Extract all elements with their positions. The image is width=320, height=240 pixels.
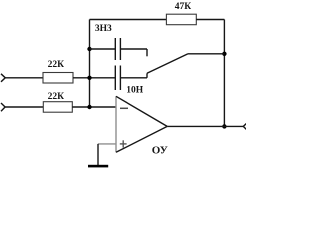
wire non-inverting input to ground drop — [98, 143, 116, 145]
wire switch arm to right rail — [188, 53, 224, 55]
input terminal IN2 chevron — [1, 103, 5, 111]
wire vertical summing rail — [89, 20, 91, 108]
wire R2 to inverting input of U1 — [72, 106, 116, 108]
switch SA1 pivot stub — [146, 73, 148, 78]
wire C1 to switch contact — [120, 48, 147, 50]
svg-text:ОУ: ОУ — [152, 144, 168, 156]
op-amp U1 body — [116, 96, 167, 152]
svg-text:22К: 22К — [48, 60, 65, 70]
node junction on rail at C2 row — [87, 76, 91, 80]
wire ground drop vertical — [97, 144, 99, 165]
output terminal OUT chevron — [243, 122, 248, 131]
capacitor C2 10Н — [115, 66, 120, 91]
node junction output on right rail — [222, 124, 226, 128]
node junction on rail at C1 row — [87, 47, 91, 51]
wire op-amp output to right rail — [167, 125, 243, 127]
ground symbol — [88, 165, 108, 168]
input terminal IN1 chevron — [1, 74, 5, 82]
resistor R1 22K — [43, 73, 73, 84]
resistor R3 47K — [166, 14, 196, 25]
svg-text:47К: 47К — [175, 2, 192, 12]
capacitor C1 3Н3 — [115, 38, 120, 60]
wire R1 to node N1 and capacitor C2 — [73, 77, 115, 79]
switch SA1 fixed contact stub — [146, 49, 148, 56]
resistor R2 22K — [43, 102, 72, 113]
wire top feedback run to R3 — [90, 19, 167, 21]
wire IN2 to R2 — [5, 106, 43, 108]
wire IN1 to R1 — [5, 77, 43, 79]
op-amp U1 non-inverting input plus sign — [120, 140, 127, 147]
op-amp U1 inverting input minus sign — [120, 107, 128, 109]
svg-text:10Н: 10Н — [126, 86, 144, 96]
wire C2 to switch pivot — [120, 77, 147, 79]
node junction switch wire on right rail — [222, 52, 226, 56]
node junction on rail at inverting input row — [87, 105, 91, 109]
switch SA1 arm — [147, 54, 188, 74]
wire right feedback rail vertical — [223, 20, 225, 127]
wire rail to capacitor C1 — [90, 48, 116, 50]
svg-text:22К: 22К — [48, 92, 65, 102]
svg-text:3Н3: 3Н3 — [95, 24, 112, 34]
wire R3 to right feedback rail — [196, 19, 224, 21]
